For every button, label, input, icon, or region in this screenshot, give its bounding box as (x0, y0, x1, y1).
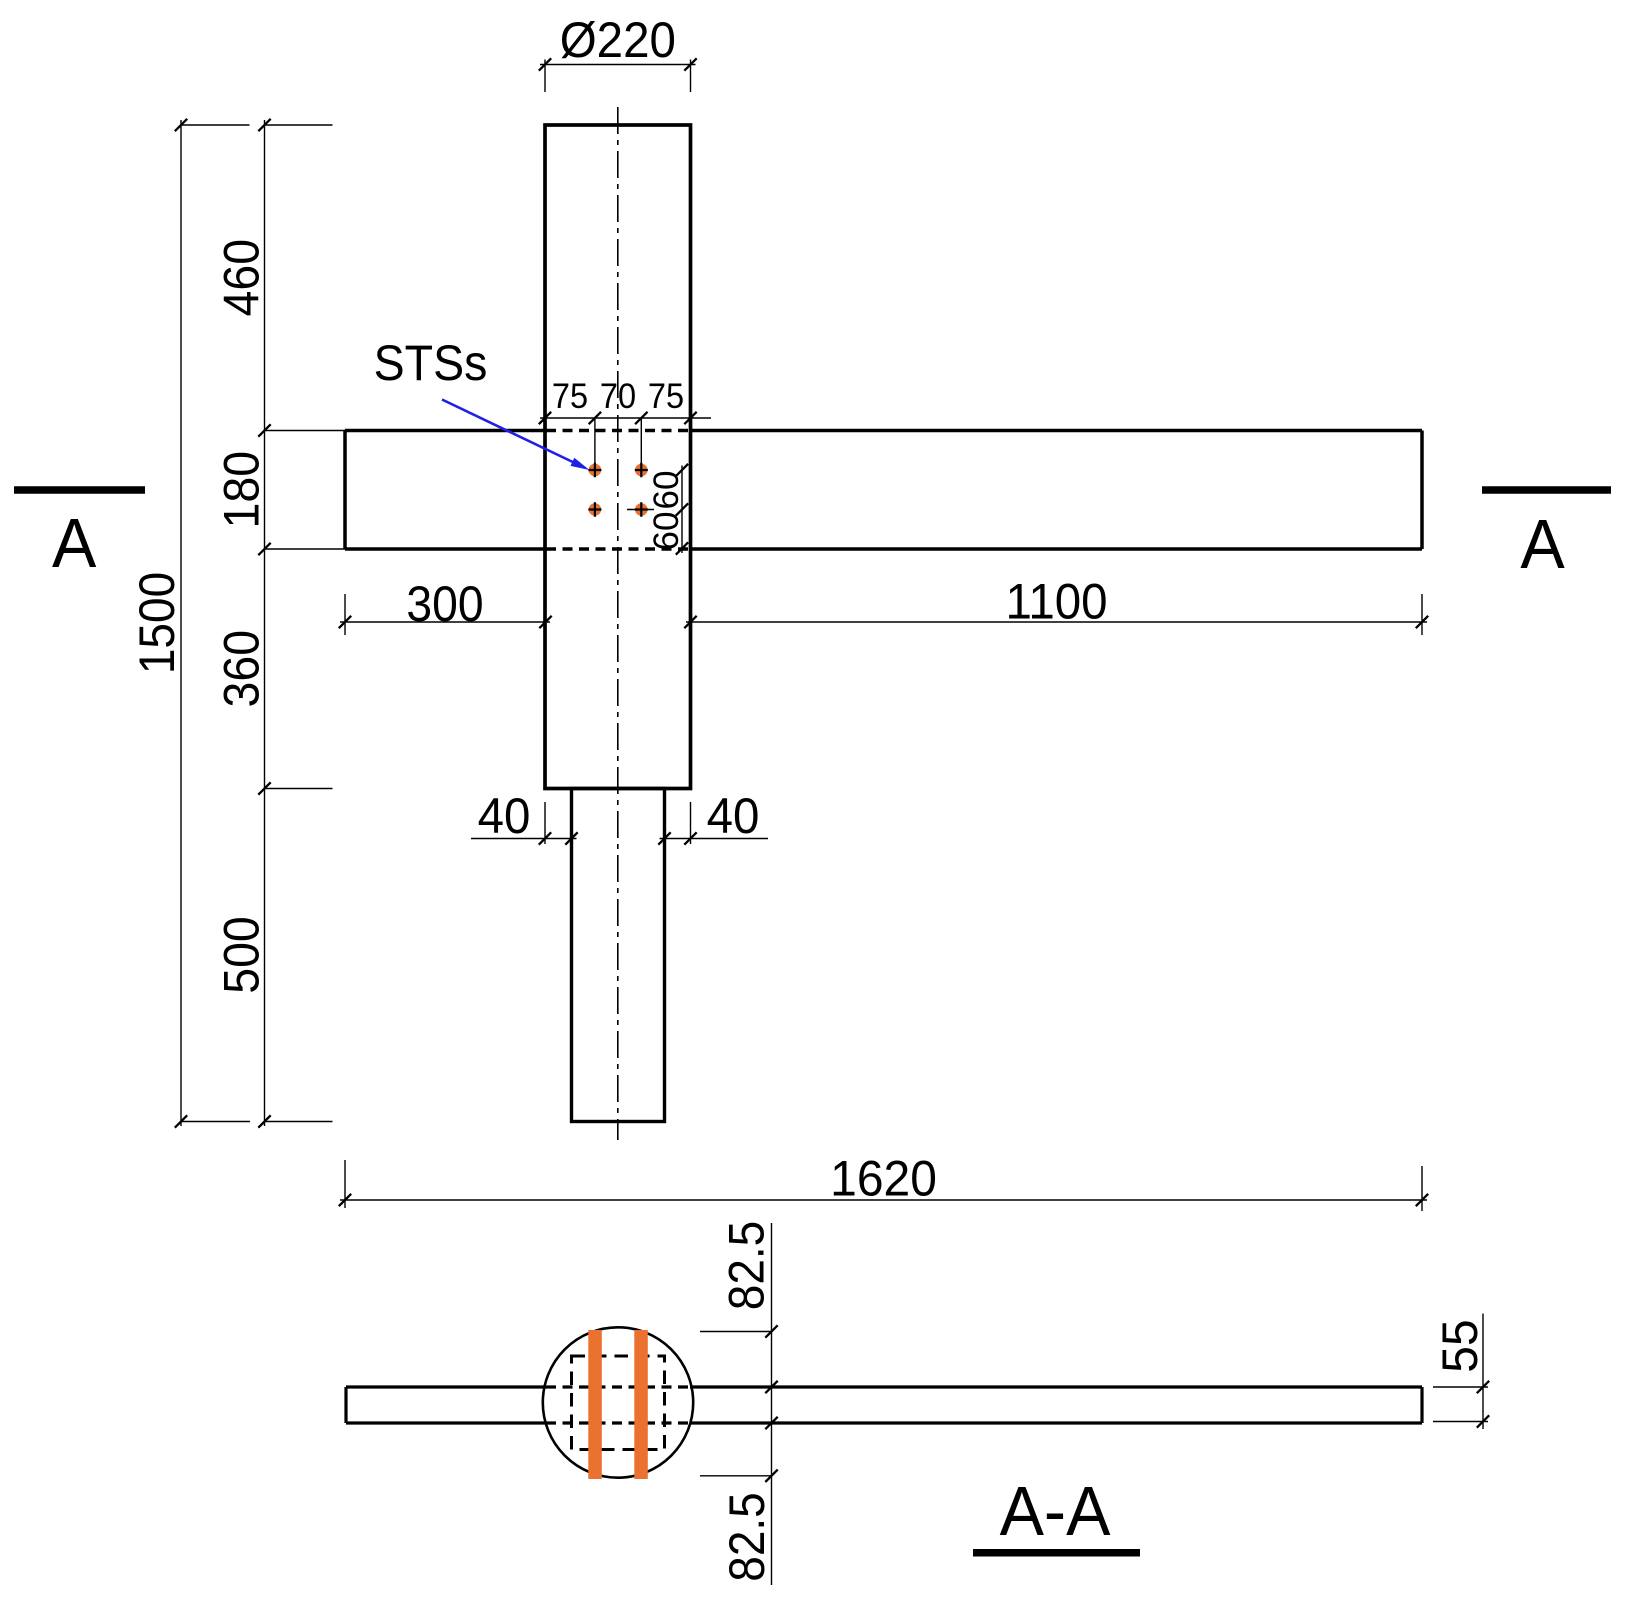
svg-text:82.5: 82.5 (720, 1221, 775, 1311)
svg-text:180: 180 (214, 451, 270, 529)
svg-text:1100: 1100 (1005, 574, 1107, 629)
svg-text:40: 40 (478, 789, 531, 844)
svg-text:75: 75 (648, 377, 684, 416)
svg-text:55: 55 (1433, 1319, 1488, 1372)
svg-text:A-A: A-A (1000, 1472, 1111, 1550)
svg-text:A: A (1520, 505, 1565, 583)
svg-text:A: A (52, 504, 97, 582)
svg-text:75: 75 (552, 377, 588, 416)
svg-text:1620: 1620 (830, 1152, 937, 1207)
svg-text:1500: 1500 (130, 572, 185, 674)
svg-text:60: 60 (647, 471, 686, 510)
svg-text:500: 500 (214, 916, 270, 994)
svg-text:300: 300 (406, 576, 483, 632)
svg-text:82.5: 82.5 (720, 1492, 775, 1582)
svg-text:Ø220: Ø220 (560, 13, 676, 68)
svg-text:60: 60 (647, 512, 686, 551)
svg-text:360: 360 (214, 630, 270, 708)
svg-text:STSs: STSs (374, 335, 488, 391)
svg-text:70: 70 (600, 377, 636, 416)
svg-text:40: 40 (707, 789, 760, 844)
svg-text:460: 460 (214, 239, 270, 317)
